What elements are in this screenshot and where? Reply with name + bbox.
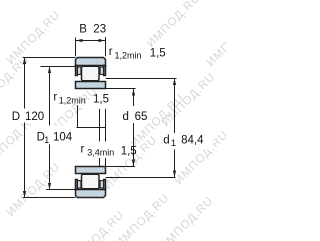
B dimension line	[76, 40, 105, 42]
svg-text:D: D	[12, 111, 20, 123]
svg-text:ИМПОД.RU: ИМПОД.RU	[160, 71, 218, 129]
outer ring left lip bottom	[76, 180, 78, 190]
cage boxes top	[78, 67, 104, 74]
svg-text:3,4min: 3,4min	[87, 148, 114, 158]
D1 dimension line	[49, 67, 51, 190]
svg-text:104: 104	[53, 132, 73, 144]
svg-text:1,2min: 1,2min	[59, 96, 86, 106]
B arrows	[76, 39, 83, 42]
svg-text:1: 1	[171, 138, 176, 148]
outer ring left lip	[76, 66, 78, 76]
D extension bottom	[23, 197, 76, 199]
svg-text:1: 1	[44, 135, 49, 145]
outer ring slab bottom	[76, 190, 106, 198]
inner ring slab	[76, 82, 106, 89]
D1 arrows	[48, 67, 51, 74]
svg-text:ИМПОД.RU: ИМПОД.RU	[145, 0, 203, 50]
svg-text:84,4: 84,4	[181, 135, 204, 147]
svg-text:r: r	[109, 46, 113, 58]
svg-text:1,5: 1,5	[93, 94, 109, 106]
D arrows	[23, 58, 26, 65]
svg-text:ИМПОД.RU: ИМПОД.RU	[0, 54, 32, 112]
d1 extension top	[106, 78, 177, 80]
D extension top	[23, 57, 76, 59]
svg-text:1,2min: 1,2min	[115, 50, 142, 60]
dimension/extension lines	[23, 37, 177, 198]
svg-text:r: r	[81, 144, 85, 156]
inner ring slab bottom	[76, 167, 106, 174]
bearing cross-section top half	[76, 58, 106, 89]
svg-text:1,5: 1,5	[121, 145, 137, 157]
B extension lines	[75, 38, 77, 57]
svg-text:d: d	[163, 135, 169, 147]
svg-text:ИМПОД.RU: ИМПОД.RU	[205, 11, 226, 69]
svg-text:23: 23	[93, 23, 106, 35]
d arrows	[132, 89, 135, 96]
bearing cross-section bottom half (mirror)	[76, 167, 106, 198]
d extension top	[76, 88, 136, 90]
d1 arrows	[173, 79, 176, 86]
arrowheads	[23, 39, 176, 198]
d1 extension bottom	[106, 177, 176, 179]
outer ring right lip	[104, 66, 106, 76]
svg-text:B: B	[79, 23, 87, 35]
D1 extension bottom	[46, 189, 76, 191]
svg-text:d: d	[123, 111, 129, 123]
axis segment	[77, 127, 106, 129]
d extension bottom	[106, 166, 136, 168]
svg-text:r: r	[53, 92, 57, 104]
svg-text:ИМПОД.RU: ИМПОД.RU	[5, 9, 63, 67]
svg-text:65: 65	[135, 111, 148, 123]
d dimension line	[133, 89, 135, 167]
outer ring slab top	[76, 58, 106, 66]
svg-text:120: 120	[25, 111, 44, 123]
D dimension line	[24, 58, 26, 198]
leader pair from 1,5 #2	[99, 109, 101, 167]
cage boxes bottom	[78, 181, 104, 188]
text halos	[10, 106, 213, 158]
svg-text:1,5: 1,5	[150, 47, 166, 59]
d1 dimension line	[174, 79, 176, 178]
outer ring right lip bottom	[104, 180, 106, 190]
D1 extension top	[41, 66, 76, 68]
roller top	[82, 66, 100, 80]
roller bottom	[82, 174, 100, 188]
leader below r 1,2min #2	[77, 105, 79, 127]
